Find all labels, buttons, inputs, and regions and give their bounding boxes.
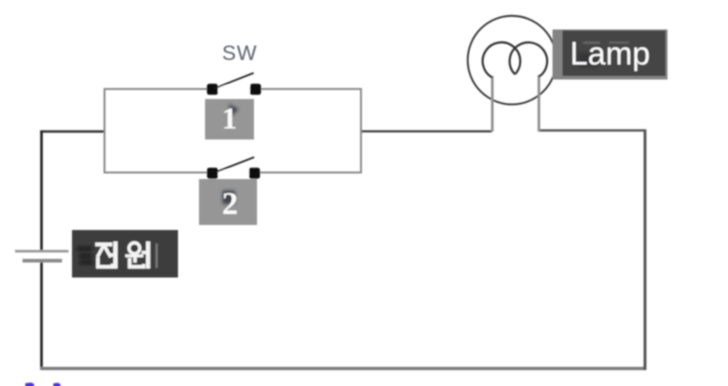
원: u stem: [133, 257, 137, 263]
label box 전원 (power source): [72, 230, 178, 278]
switch 1 label box: [205, 99, 254, 140]
원: ieung circle: [129, 243, 140, 254]
전: eo vertical: [113, 241, 117, 268]
cut-off blue text mark 2 (bottom edge): [53, 383, 60, 386]
wire: right vertical: [644, 130, 647, 370]
lamp left lead: [491, 76, 494, 132]
svg-text:1: 1: [222, 101, 238, 136]
원: eo tick: [142, 251, 146, 255]
gap in top branch between switch contacts: [218, 86, 250, 93]
lamp right lead: [538, 75, 541, 132]
ghost artifact in box 1: [229, 104, 239, 116]
switch SW2 left contact dot: [207, 168, 218, 179]
switch SW1 right contact dot: [250, 84, 261, 95]
전: jieut top bar: [95, 242, 112, 246]
svg-text:2: 2: [222, 185, 238, 221]
lamp filament right lobe: [510, 42, 548, 76]
gap in bottom branch between switch contacts: [218, 170, 249, 177]
전: jieut right leg: [104, 246, 111, 258]
battery B1 short plate: [23, 259, 63, 263]
faint ghost vertical right of 원: [156, 244, 158, 269]
switch SW1 left contact dot: [207, 84, 218, 95]
원: nieun: [130, 258, 144, 267]
원: u bar: [125, 254, 143, 257]
wire: left vertical (battery top side): [40, 131, 43, 252]
ghost artifacts above Lamp text: [583, 42, 600, 44]
전: eo tick: [109, 253, 114, 257]
switch box (parallel branch rectangle): [105, 89, 362, 173]
lamp L1 envelope circle: [468, 16, 557, 105]
전: jieut left leg: [97, 246, 103, 258]
battery B1 long plate: [15, 250, 69, 253]
Lamp label dark box: [563, 31, 666, 77]
wire: left vertical (battery bottom side): [40, 261, 43, 370]
ghost artifact in box 2: [223, 191, 236, 205]
wire: lamp right leg to right vertical: [538, 129, 646, 131]
svg-text:SW: SW: [222, 42, 257, 65]
switch 2 label box: [199, 179, 257, 225]
전: nieun: [98, 258, 113, 267]
label text 전원 (hand drawn strokes): [95, 241, 148, 268]
switch SW2 lever: [217, 157, 254, 171]
Lamp label backdrop (gray): [553, 30, 668, 80]
switch SW2 right contact dot: [249, 168, 260, 179]
wire: bottom horizontal: [40, 367, 646, 370]
switch SW1 lever: [216, 73, 254, 88]
svg-text:Lamp: Lamp: [570, 36, 650, 72]
wire: switch box to lamp left leg: [361, 130, 492, 132]
wire: left feed from battery branch to switch box: [40, 130, 105, 132]
cut-off blue text mark 1 (bottom edge): [25, 383, 34, 386]
ghost artifact of 전: [77, 249, 93, 263]
원: eo vertical: [146, 241, 150, 268]
lamp filament left lobe: [483, 42, 521, 77]
